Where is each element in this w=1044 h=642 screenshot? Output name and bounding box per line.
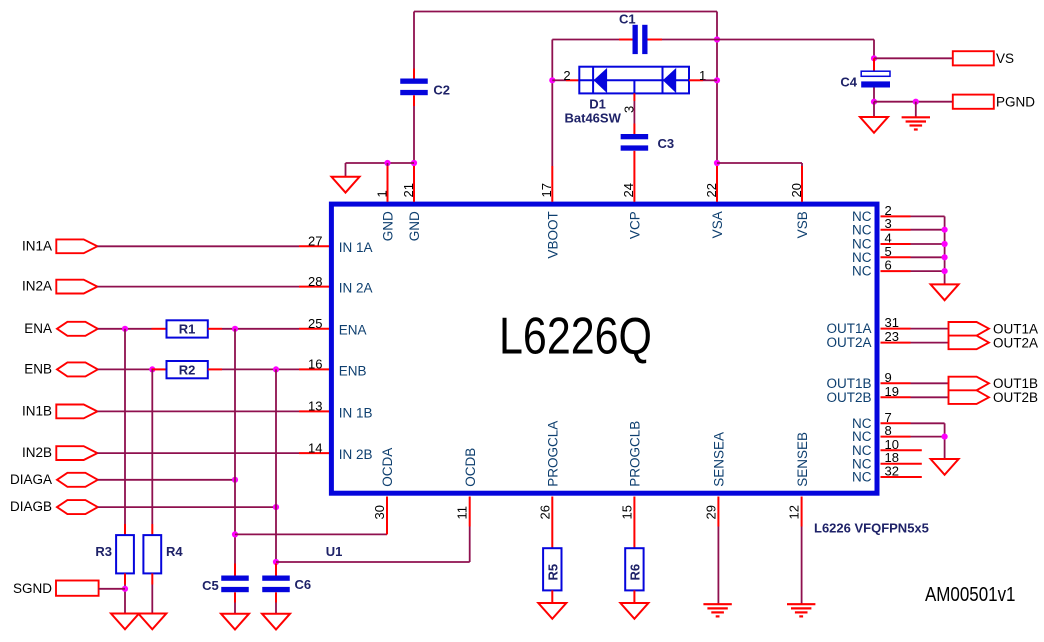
- resistor R5: [543, 548, 561, 590]
- svg-text:VSA: VSA: [710, 211, 725, 238]
- wire DIAGA: [98, 479, 235, 481]
- wire OCDA horizontal: [235, 533, 387, 535]
- node junction NC8: [942, 434, 948, 440]
- resistor R6: [625, 548, 643, 590]
- svg-text:OCDA: OCDA: [380, 448, 395, 487]
- connector pair OUT1A/OUT2A: [949, 322, 989, 349]
- svg-text:19: 19: [885, 384, 899, 399]
- wire C4 ground stem: [873, 102, 875, 117]
- connector IN2A: [56, 280, 97, 294]
- node junction ENB/V2: [149, 366, 155, 372]
- wire earth stem: [915, 102, 917, 118]
- wire OCDB vertical: [469, 527, 471, 563]
- node junction PGND/earth: [913, 99, 919, 105]
- svg-text:IN1A: IN1A: [22, 238, 52, 253]
- capacitor C6 top lead: [275, 564, 277, 576]
- svg-text:Bat46SW: Bat46SW: [565, 111, 622, 126]
- IC pin 29 SENSEA (bottom): [717, 497, 719, 527]
- connector VS: [953, 51, 994, 65]
- svg-text:R2: R2: [179, 362, 196, 377]
- wire SGND: [99, 588, 125, 590]
- ground NC top group GND: [931, 284, 959, 300]
- node junction VSA/C1: [714, 36, 720, 42]
- resistor R5 top lead: [551, 527, 553, 549]
- node junction NC: [942, 268, 948, 274]
- svg-text:C4: C4: [840, 74, 857, 89]
- node junction VS/C4: [871, 55, 877, 61]
- ground PGND earth: [902, 116, 930, 118]
- resistor R4 bottom lead: [151, 573, 153, 584]
- wire C5 to ground: [234, 603, 236, 614]
- svg-text:C2: C2: [433, 82, 450, 97]
- svg-text:26: 26: [537, 505, 552, 519]
- svg-text:SENSEA: SENSEA: [712, 432, 727, 487]
- svg-text:14: 14: [308, 440, 322, 455]
- node junction NC: [942, 241, 948, 247]
- svg-text:NC: NC: [852, 250, 872, 265]
- IC pin 11 OCDB (bottom): [469, 497, 471, 527]
- wire ENB to R2: [98, 368, 152, 370]
- svg-text:PROGCLB: PROGCLB: [628, 421, 643, 487]
- connector IN1B: [56, 405, 97, 419]
- wire OCDA vertical: [386, 527, 388, 535]
- svg-text:C3: C3: [658, 136, 675, 151]
- IC pin 1 GND (top): [387, 166, 389, 202]
- capacitor C2 top lead: [413, 69, 415, 79]
- svg-text:GND: GND: [381, 211, 396, 241]
- wire OUT2B: [911, 396, 949, 398]
- IC pin 21 GND (top): [413, 166, 415, 202]
- wire DIAGB: [98, 506, 276, 508]
- wire C1 net corner to VS junction: [873, 40, 875, 59]
- wire OUT1B: [911, 382, 949, 384]
- wire IN2B: [97, 452, 299, 454]
- IC pin 23 OUT2A (right): [881, 342, 911, 344]
- connector PGND: [953, 95, 994, 109]
- IC pin 7 NC (right): [881, 422, 911, 424]
- IC pin 12 SENSEB (bottom): [801, 497, 803, 527]
- svg-text:28: 28: [308, 274, 322, 289]
- svg-text:IN 1A: IN 1A: [339, 240, 373, 255]
- resistor R2 right lead: [208, 368, 222, 370]
- wire D1 pin2: [552, 79, 566, 81]
- capacitor C2: [400, 79, 428, 84]
- diode D1 pin1 lead: [689, 79, 703, 81]
- svg-text:25: 25: [308, 316, 322, 331]
- resistor R1 left lead: [152, 328, 167, 330]
- IC pin 9 OUT1B (right): [881, 382, 911, 384]
- wire R1 to IC: [222, 328, 299, 330]
- svg-text:C6: C6: [295, 577, 312, 592]
- wire VBOOT to C1: [552, 39, 619, 41]
- svg-text:SENSEB: SENSEB: [795, 432, 810, 487]
- IC pin 15 PROGCLB (bottom): [633, 497, 635, 527]
- wire GND net stem: [345, 163, 347, 177]
- capacitor C6: [262, 576, 290, 581]
- wire C2 top: [413, 12, 415, 69]
- svg-text:29: 29: [703, 505, 718, 519]
- IC pin 28 IN 2A (left): [299, 286, 329, 288]
- node junction VSA/D1 pin1: [714, 77, 720, 83]
- capacitor C3 top lead: [633, 124, 635, 135]
- resistor R3 top lead: [124, 524, 126, 535]
- diode D1 pin2 lead: [566, 79, 579, 81]
- IC pin 31 OUT1A (right): [881, 328, 911, 330]
- svg-text:OUT1B: OUT1B: [826, 376, 871, 391]
- svg-text:IN 2B: IN 2B: [339, 447, 373, 462]
- IC pin 20 VSB (top): [801, 166, 803, 202]
- wire NC pin to vertical: [911, 270, 945, 272]
- connector SGND: [56, 581, 99, 596]
- svg-text:11: 11: [455, 506, 470, 520]
- svg-text:21: 21: [401, 183, 416, 197]
- IC body U1 L6226Q: [331, 204, 877, 493]
- svg-text:C5: C5: [202, 578, 219, 593]
- IC pin 3 NC (right): [881, 229, 911, 231]
- node junction ENB/V4: [273, 366, 279, 372]
- wire V4: [275, 369, 277, 563]
- node junction ENA/V1: [122, 326, 128, 332]
- svg-text:13: 13: [308, 399, 322, 414]
- IC pin 4 NC (right): [881, 243, 911, 245]
- ground C4 GND: [860, 117, 888, 133]
- ground C5 GND: [221, 614, 249, 630]
- svg-text:OUT2B: OUT2B: [993, 390, 1038, 405]
- resistor R4 top lead: [151, 524, 153, 535]
- wire VBOOT vertical: [551, 40, 553, 167]
- svg-text:PGND: PGND: [996, 94, 1035, 109]
- svg-text:R6: R6: [628, 564, 643, 581]
- ground R4 GND: [138, 614, 166, 630]
- resistor R2 left lead: [152, 368, 167, 370]
- svg-text:ENB: ENB: [339, 363, 367, 378]
- wire to PGND connector: [874, 101, 953, 103]
- svg-text:ENB: ENB: [24, 361, 52, 376]
- IC pin 17 VBOOT (top): [551, 166, 553, 202]
- capacitor C1 right lead: [648, 39, 663, 41]
- capacitor C2 bottom lead: [413, 95, 415, 106]
- capacitor C5 bottom lead: [234, 592, 236, 602]
- connector DIAGB: [57, 500, 98, 514]
- capacitor C3: [621, 134, 649, 139]
- wire V3: [234, 329, 236, 564]
- svg-text:D1: D1: [589, 97, 606, 112]
- resistor R4: [143, 535, 161, 573]
- svg-text:NC: NC: [852, 470, 872, 485]
- svg-text:9: 9: [885, 370, 892, 385]
- ground R5 GND: [538, 603, 566, 619]
- connector ENB: [57, 362, 98, 376]
- IC pin 13 IN 1B (left): [299, 410, 329, 412]
- connector IN1A: [56, 239, 97, 253]
- node junction C4/PGND: [871, 99, 877, 105]
- ground NC bottom group GND: [931, 459, 959, 475]
- svg-text:AM00501v1: AM00501v1: [925, 584, 1016, 606]
- wire GND pin1 upper: [387, 163, 389, 166]
- diode D1 pin3 lead: [633, 93, 635, 101]
- node junction DIAGB/V4: [273, 504, 279, 510]
- connector IN2B: [56, 446, 97, 460]
- svg-text:DIAGA: DIAGA: [10, 472, 52, 487]
- wire net C2-top to VSA column: [414, 11, 717, 13]
- svg-text:IN2B: IN2B: [22, 445, 52, 460]
- svg-text:23: 23: [885, 329, 899, 344]
- wire OUT1A: [911, 328, 949, 330]
- wire C2 to GND pin 21: [413, 106, 415, 166]
- node junction VBOOT/D1 pin2: [549, 77, 555, 83]
- node junction ENA/V3: [232, 326, 238, 332]
- IC pin 19 OUT2B (right): [881, 396, 911, 398]
- svg-text:OUT1B: OUT1B: [993, 376, 1038, 391]
- wire C6 to ground: [275, 603, 277, 614]
- resistor R1 right lead: [208, 328, 222, 330]
- resistor R3: [116, 535, 134, 573]
- wire R3 to ground: [124, 585, 126, 614]
- svg-text:IN 2A: IN 2A: [339, 281, 373, 296]
- svg-text:NC: NC: [852, 264, 872, 279]
- IC pin 2 NC (right): [881, 215, 911, 217]
- wire SENSEA to earth: [717, 527, 719, 605]
- IC pin 27 IN 1A (left): [299, 245, 329, 247]
- svg-text:U1: U1: [326, 544, 343, 559]
- wire V1 ENA to R3: [124, 329, 126, 524]
- node junction GND21: [411, 160, 417, 166]
- svg-text:IN2A: IN2A: [22, 279, 52, 294]
- wire OCDB horizontal: [276, 561, 470, 563]
- svg-text:1: 1: [374, 190, 389, 197]
- svg-text:20: 20: [789, 183, 804, 197]
- svg-text:IN 1B: IN 1B: [339, 405, 373, 420]
- resistor R3 bottom lead: [124, 573, 126, 584]
- svg-text:PROGCLA: PROGCLA: [546, 421, 561, 487]
- svg-text:R1: R1: [179, 322, 196, 337]
- node junction NC: [942, 227, 948, 233]
- svg-text:VS: VS: [996, 51, 1014, 66]
- wire V2 ENB to R4: [151, 369, 153, 524]
- IC pin 22 VSA (top): [716, 166, 718, 202]
- capacitor C1: [633, 25, 638, 54]
- svg-text:OCDB: OCDB: [463, 448, 478, 487]
- svg-text:VSB: VSB: [795, 211, 810, 238]
- svg-text:30: 30: [372, 505, 387, 519]
- diode D1 Bat46SW body: [579, 67, 689, 94]
- svg-text:C1: C1: [619, 12, 636, 27]
- svg-text:DIAGB: DIAGB: [10, 499, 52, 514]
- IC pin 5 NC (right): [881, 256, 911, 258]
- wire IN2A: [97, 286, 299, 288]
- wire NC bottom vertical: [944, 423, 946, 459]
- svg-text:17: 17: [539, 183, 554, 197]
- IC pin 32 NC (right): [881, 476, 922, 478]
- node junction DIAGA/V3: [232, 477, 238, 483]
- svg-text:R4: R4: [166, 544, 183, 559]
- wire SENSEB to earth: [801, 527, 803, 605]
- wire D1 pin1 to VSA column: [703, 79, 717, 81]
- svg-text:15: 15: [619, 505, 634, 519]
- IC pin 25 ENA (left): [299, 328, 329, 330]
- IC pin 26 PROGCLA (bottom): [551, 497, 553, 527]
- ground R6 GND: [620, 603, 648, 619]
- svg-text:16: 16: [308, 357, 322, 372]
- resistor R6 bottom lead: [633, 590, 635, 603]
- svg-text:SGND: SGND: [13, 581, 52, 596]
- IC pin 10 NC (right): [881, 449, 922, 451]
- wire VSA vertical: [716, 12, 718, 167]
- capacitor C1 left lead: [619, 39, 633, 41]
- svg-text:OUT2A: OUT2A: [993, 335, 1038, 350]
- connector ENA: [57, 322, 98, 336]
- wire IN1A: [97, 245, 299, 247]
- wire R2 to IC: [222, 368, 299, 370]
- svg-text:R5: R5: [546, 564, 561, 581]
- svg-text:VBOOT: VBOOT: [546, 211, 561, 258]
- IC pin 18 NC (right): [881, 463, 922, 465]
- svg-text:12: 12: [787, 505, 802, 519]
- svg-text:NC: NC: [852, 222, 872, 237]
- svg-text:ENA: ENA: [24, 321, 52, 336]
- node junction VSA/VSB: [714, 160, 720, 166]
- capacitor C5 top lead: [234, 564, 236, 576]
- IC pin 8 NC (right): [881, 436, 911, 438]
- capacitor C5: [221, 576, 249, 581]
- IC pin 30 OCDA (bottom): [386, 497, 388, 527]
- svg-text:OUT1A: OUT1A: [826, 321, 871, 336]
- svg-text:VCP: VCP: [628, 211, 643, 239]
- wire NC pin7 to vertical: [911, 422, 945, 424]
- IC pin 16 ENB (left): [299, 368, 329, 370]
- svg-text:32: 32: [885, 464, 899, 479]
- capacitor C6 bottom lead: [275, 592, 277, 602]
- svg-text:6: 6: [885, 258, 892, 273]
- resistor R6 top lead: [633, 527, 635, 549]
- wire NC pin to vertical: [911, 229, 945, 231]
- capacitor C3 bottom lead / VCP pin stub: [633, 151, 635, 202]
- wire IN1B: [97, 410, 299, 412]
- ground SENSEB earth: [787, 603, 815, 605]
- wire R4 to ground: [151, 585, 153, 614]
- svg-text:22: 22: [704, 183, 719, 197]
- svg-text:3: 3: [885, 216, 892, 231]
- svg-text:31: 31: [885, 315, 899, 330]
- svg-text:GND: GND: [407, 211, 422, 241]
- svg-text:5: 5: [885, 244, 892, 259]
- wire VSA-VSB horizontal: [717, 162, 802, 164]
- capacitor C4 (polarized): [861, 71, 890, 76]
- svg-text:L6226 VFQFPN5x5: L6226 VFQFPN5x5: [814, 520, 929, 535]
- resistor R2: [167, 361, 208, 378]
- capacitor C4 bottom lead: [873, 88, 875, 102]
- wire NC top vertical: [944, 216, 946, 284]
- wire NC pin to vertical: [911, 256, 945, 258]
- svg-text:27: 27: [308, 234, 322, 249]
- node junction GND1: [384, 160, 390, 166]
- wire VSB vertical: [801, 163, 803, 166]
- wire C1 to VS column: [662, 39, 874, 41]
- wire to VS connector: [874, 57, 953, 59]
- wire NC pin2 to vertical: [911, 215, 945, 217]
- capacitor C4 top lead: [873, 58, 875, 71]
- wire NC pin8 to vertical: [911, 436, 945, 438]
- svg-text:R3: R3: [95, 544, 112, 559]
- wire GND net horizontal: [346, 162, 415, 164]
- ground SENSEA earth: [703, 603, 731, 605]
- wire OUT2A: [911, 342, 949, 344]
- ground R3 GND: [111, 614, 139, 630]
- svg-text:ENA: ENA: [339, 323, 367, 338]
- resistor R1: [167, 320, 208, 337]
- wire ENA to R1: [98, 328, 152, 330]
- resistor R5 bottom lead: [551, 590, 553, 603]
- wire D1 pin3 to C3: [633, 101, 635, 124]
- wire NC pin to vertical: [911, 243, 945, 245]
- IC pin 6 NC (right): [881, 270, 911, 272]
- svg-text:OUT2B: OUT2B: [826, 390, 871, 405]
- ground C6 GND: [262, 614, 290, 630]
- svg-text:L6226Q: L6226Q: [499, 308, 652, 366]
- ground top-left GND: [332, 177, 360, 193]
- svg-text:OUT1A: OUT1A: [993, 321, 1038, 336]
- svg-text:2: 2: [563, 68, 570, 83]
- svg-text:IN1B: IN1B: [22, 403, 52, 418]
- IC pin 14 IN 2B (left): [299, 452, 329, 454]
- node junction SGND: [122, 586, 128, 592]
- node junction OCDB net: [273, 559, 279, 565]
- node junction NC: [942, 254, 948, 260]
- connector pair OUT1B/OUT2B: [949, 377, 989, 404]
- node junction OCDA net: [232, 531, 238, 537]
- connector DIAGA: [57, 473, 98, 487]
- svg-text:OUT2A: OUT2A: [826, 335, 871, 350]
